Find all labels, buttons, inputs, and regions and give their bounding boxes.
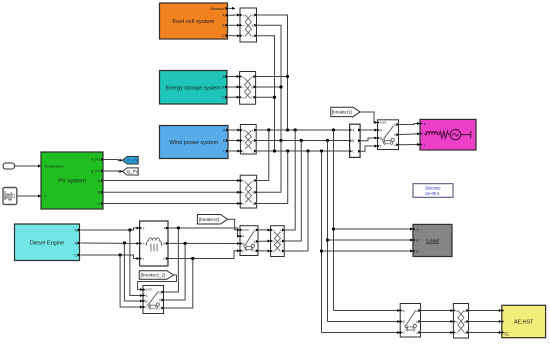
wire signal builder to PV G (17, 195, 41, 197)
wire breaker1 c to source (399, 144, 421, 146)
svg-text:[breaker1]: [breaker1] (332, 110, 352, 115)
from tag [breaker1] (331, 107, 360, 116)
wire diesel A branch to breaker2_2 (130, 230, 143, 296)
wire feeder phase A vertical (333, 130, 335, 311)
svg-text:b: b (424, 132, 426, 136)
svg-text:b: b (143, 242, 145, 246)
svg-text:com: com (380, 121, 387, 125)
subsystem Diesel Engine (15, 224, 80, 261)
svg-text:B: B (252, 139, 254, 143)
subsystem Load (413, 224, 452, 256)
wire transformer C to breaker2 (168, 251, 240, 259)
wire wind B to measurement (229, 140, 240, 142)
wire breaker3 a to measurement (421, 310, 454, 312)
wire breaker2 b to measurement (258, 240, 271, 242)
wire breaker1 tag to com (360, 112, 377, 123)
wire breaker2_2 tag to com (138, 275, 177, 290)
subsystem Fuel cell system (160, 3, 228, 39)
wire tap to Load A (334, 228, 414, 230)
signal builder block (irradiance) (3, 188, 17, 205)
wire breaker2 c to measurement (258, 250, 271, 252)
bus selector block (350, 124, 361, 157)
wire feeder phase B vertical (327, 141, 329, 322)
svg-text:B: B (380, 136, 382, 140)
wire diesel A to transformer (81, 228, 140, 230)
svg-text:B: B (403, 320, 405, 324)
svg-text:C: C (74, 253, 77, 257)
svg-text:com: com (243, 228, 250, 232)
wire fuel cell A to measurement (229, 14, 241, 16)
wire wind C to measurement (229, 150, 240, 152)
svg-text:[breaker2]: [breaker2] (199, 217, 219, 222)
svg-text:b: b (243, 24, 245, 28)
three-phase breaker 1 (378, 120, 399, 150)
svg-text:PV system: PV system (58, 179, 86, 185)
svg-text:a: a (243, 13, 245, 17)
wire diesel phase A up to bus (284, 130, 295, 230)
wire breaker2 a to measurement (258, 229, 271, 231)
svg-text:a: a (416, 309, 418, 313)
wire fuel cell phase A down to bus (257, 15, 288, 130)
bus row C (256, 150, 349, 152)
svg-text:AE,HST: AE,HST (514, 320, 534, 326)
svg-text:b: b (394, 133, 396, 137)
svg-text:b: b (254, 240, 256, 244)
three-phase breaker 3 (400, 304, 420, 338)
wire diesel B to transformer (81, 242, 140, 244)
svg-text:a: a (456, 309, 458, 313)
wire diesel phase C up to bus (284, 151, 308, 251)
wire PV Q_PV to goto tag (104, 170, 123, 172)
svg-text:a: a (424, 122, 426, 126)
from tag [breaker2_2] (139, 271, 173, 280)
svg-text:C: C (223, 149, 226, 153)
wire measurement to AE,HST C (469, 332, 502, 334)
bus row B (256, 140, 349, 142)
wire PV A to measurement (104, 180, 240, 182)
svg-text:a: a (243, 128, 245, 132)
three-phase breaker 2 (240, 226, 258, 256)
wire transformer A to breaker2 (168, 228, 240, 236)
subsystem Wind power system (160, 126, 229, 159)
svg-text:C: C (222, 34, 225, 38)
three-phase breaker 2_2 (143, 286, 164, 314)
svg-text:Load: Load (426, 239, 438, 245)
svg-text:G: G (44, 194, 47, 198)
wire PV B to measurement (104, 191, 240, 193)
wire measurement to AE,HST A (469, 310, 502, 312)
wire tap to Load B (328, 239, 414, 241)
wire feeder C to breaker3 (322, 332, 401, 334)
wire diesel C branch to breaker2_2 (120, 255, 143, 307)
svg-text:Fuel cell system: Fuel cell system (173, 19, 215, 25)
svg-text:Temperature: Temperature (44, 164, 64, 168)
wire PV phase C up to bus (257, 151, 288, 204)
svg-text:a: a (143, 226, 145, 230)
wire breaker1 a to source (399, 124, 421, 125)
wire PV P_PV to goto tag (104, 159, 123, 162)
svg-text:b: b (243, 139, 245, 143)
svg-text:P_PV: P_PV (127, 158, 138, 163)
three-phase source block (grid) (420, 119, 476, 150)
svg-text:a: a (243, 179, 245, 183)
wire selector C to breaker1 (360, 146, 377, 151)
wire fuel cell phase B down to bus (257, 25, 282, 140)
subsystem AE,HST (502, 305, 546, 337)
three-phase V-I measurement (storage) (240, 72, 256, 105)
svg-text:Energy storage system: Energy storage system (166, 85, 222, 91)
wire PV phase B up to bus (257, 141, 281, 193)
goto tag P_PV (123, 157, 139, 165)
svg-text:B: B (145, 299, 147, 303)
goto tag Q_PV (123, 168, 139, 175)
bus row A (256, 129, 349, 131)
svg-text:Q_PV: Q_PV (91, 169, 101, 173)
wire measurement to AE,HST B (469, 321, 502, 323)
wire diesel C to transformer (81, 255, 140, 259)
svg-text:[breaker2_2]: [breaker2_2] (141, 273, 166, 278)
svg-text:B: B (252, 24, 254, 28)
subsystem PV system (41, 152, 103, 209)
svg-text:B: B (252, 191, 254, 195)
wire PV phase A up to bus (257, 130, 269, 181)
wire storage phase A to bus (256, 76, 288, 78)
svg-text:a: a (159, 290, 161, 294)
svg-text:Diesel Engine: Diesel Engine (30, 240, 65, 246)
svg-text:b: b (273, 239, 275, 243)
svg-text:b: b (243, 191, 245, 195)
svg-text:b: b (159, 298, 161, 302)
three-phase V-I measurement (AE,HST) (453, 304, 468, 339)
svg-text:Discrete: Discrete (425, 186, 441, 191)
wire wind A to measurement (229, 129, 240, 131)
wire selector B to breaker1 (360, 138, 377, 141)
wire fuel cell B to measurement (229, 24, 241, 26)
wire storage phase C to bus (256, 96, 275, 98)
svg-text:B: B (464, 320, 466, 324)
wire breaker2 tag to com (228, 219, 241, 230)
svg-text:Wind power system: Wind power system (169, 140, 218, 146)
three-phase transformer block (140, 221, 168, 266)
wire storage A to measurement (228, 76, 240, 78)
svg-text:a: a (242, 75, 244, 79)
discrete solver info block (413, 184, 453, 198)
wire breaker2_2 c up to transformer C (164, 259, 193, 309)
wire breaker2_2 a up to transformer A (164, 228, 179, 292)
svg-text:2e-06 s.: 2e-06 s. (425, 191, 440, 196)
constant block (temperature) (3, 163, 15, 169)
wire breaker2_2 b up to transformer B (164, 243, 186, 300)
svg-text:a: a (254, 228, 256, 232)
three-phase V-I measurement (wind) (240, 125, 256, 155)
wire fuel cell phase C down to bus (257, 36, 275, 151)
svg-text:a: a (273, 228, 275, 232)
wire storage C to measurement (228, 96, 240, 98)
three-phase V-I measurement (fuel cell) (240, 8, 257, 42)
svg-text:B: B (242, 242, 244, 246)
wire diesel B branch to breaker2_2 (124, 243, 143, 301)
svg-text:B: B (163, 242, 165, 246)
wire feeder A to breaker3 (334, 310, 401, 312)
wire breaker1 b to source (399, 133, 421, 136)
three-phase V-I measurement (diesel) (271, 226, 285, 257)
wire diesel phase B up to bus (284, 141, 301, 242)
wire fuel cell C to measurement (229, 35, 241, 37)
wire feeder phase C vertical (321, 151, 323, 333)
svg-text:Q_PV: Q_PV (127, 169, 139, 174)
wire feeder B to breaker3 (328, 321, 401, 323)
subsystem Energy storage system (160, 71, 228, 105)
wire breaker3 b to measurement (421, 321, 454, 323)
from tag [breaker2] (197, 215, 227, 225)
svg-text:Measure: Measure (211, 7, 225, 11)
svg-text:b: b (416, 320, 418, 324)
svg-text:a: a (394, 123, 396, 127)
wire fuel cell Measure stub (229, 7, 236, 9)
three-phase V-I measurement (PV) (240, 175, 256, 208)
wire breaker3 c to measurement (421, 332, 454, 334)
wire selector A to breaker1 (360, 129, 377, 131)
wire tap to Load C (322, 250, 414, 252)
wire PV C to measurement (104, 203, 240, 205)
svg-text:C: C (222, 96, 225, 100)
svg-text:B: B (251, 85, 253, 89)
wire storage phase B to bus (256, 86, 281, 88)
svg-text:b: b (456, 320, 458, 324)
svg-text:B: B (280, 239, 282, 243)
svg-text:b: b (242, 85, 244, 89)
svg-text:com: com (146, 288, 153, 292)
wire storage B to measurement (228, 86, 240, 88)
svg-text:P_PV: P_PV (91, 158, 101, 162)
wire constant to PV Temperature (15, 165, 42, 167)
wire transformer B to breaker2 (168, 242, 240, 244)
